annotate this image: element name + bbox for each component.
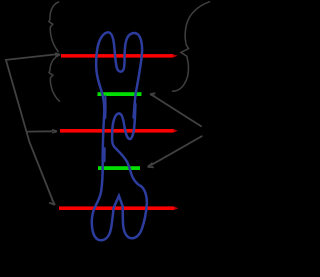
arrowhead at green band 1 [150,93,155,97]
arrowhead at red line 2 [52,130,57,133]
arrowhead at red line 3 [49,199,55,205]
green band 1 [98,92,142,96]
chromosome outline (main body: right edge, top lobes, left edge, bottom lobes) [92,32,147,240]
left fork line to red line 2 [27,130,53,132]
left brace upper [49,2,59,52]
telomere line 1 (red) [61,54,173,58]
right brace [173,2,210,92]
right label line to green band 1 [153,95,202,126]
telomere line 3 (red) [59,206,174,210]
left label line: to red line 1, then down to red line 3 [6,54,58,202]
left brace lower [49,55,60,101]
arrowhead at red line 1 [55,53,60,56]
arrowhead at green band 2 [148,163,154,168]
green band 2 [98,166,140,170]
centromere loop + diagonal down to lower-right lobe [112,104,141,186]
right label line to green band 2 [151,136,203,165]
doubled pen stroke on left edge (hand-drawn overlap) [104,96,106,118]
telomere line 2 / centromere level (red) [60,129,174,133]
